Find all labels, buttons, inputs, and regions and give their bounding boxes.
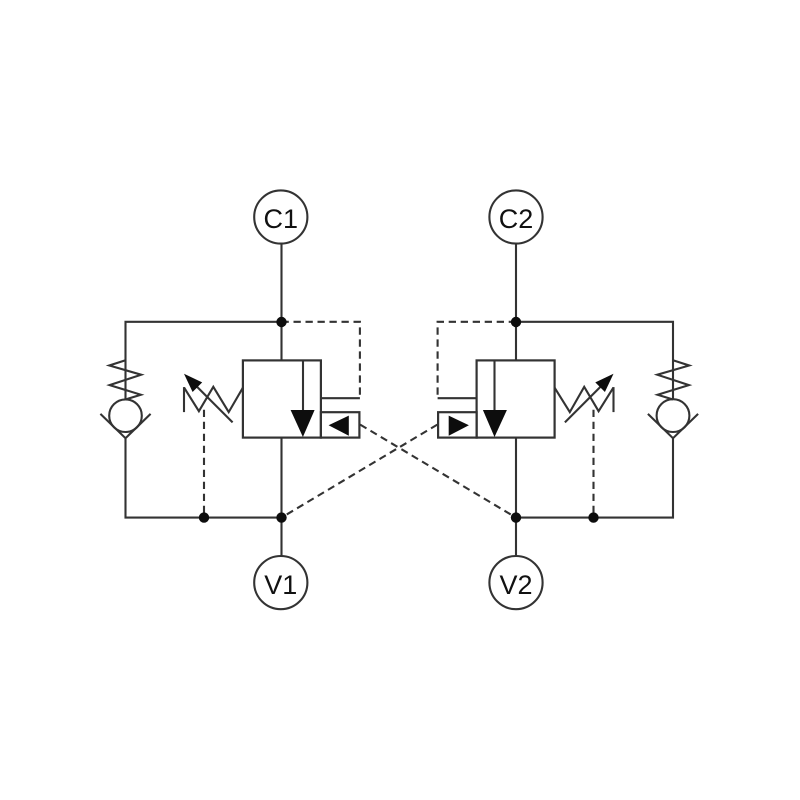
svg-text:V2: V2 bbox=[499, 570, 532, 600]
pilot line CB1 to V2 node (dashed) bbox=[360, 425, 516, 518]
CB1 adjustable spring bbox=[183, 387, 185, 412]
CB2 pilot port link bbox=[438, 397, 477, 399]
CB1 adjustment arrow head bbox=[184, 374, 202, 392]
check valve CV2 spring bbox=[657, 360, 689, 399]
CB2 adjustment arrow shaft bbox=[565, 386, 602, 423]
node F junction dot (CB2 drain) bbox=[588, 512, 598, 522]
CB2 adjustment arrow head bbox=[595, 374, 613, 392]
port V2 circle bbox=[489, 556, 542, 609]
CB2 pilot piston arrow bbox=[449, 416, 469, 436]
CB2 flow path line bbox=[493, 360, 495, 411]
CB1 flow arrow bbox=[291, 410, 315, 437]
check valve CV2 seat bbox=[648, 414, 698, 438]
svg-text:C2: C2 bbox=[499, 204, 534, 234]
port V1 circle bbox=[254, 556, 307, 609]
wire check valve CV1 to node B bbox=[126, 438, 282, 517]
port C2 circle bbox=[489, 190, 542, 243]
wire check valve CV2 to node E bbox=[516, 438, 673, 517]
counterbalance valve CB2 body bbox=[477, 360, 555, 437]
CB2 spring drain pilot line (dashed) bbox=[592, 410, 594, 518]
CB2 pilot piston box bbox=[438, 412, 477, 437]
port C1 circle bbox=[254, 190, 307, 243]
wire junction D to check valve CV2 bbox=[516, 322, 673, 400]
node C junction dot (CB1 drain) bbox=[199, 512, 209, 522]
node A junction dot (C1) bbox=[276, 317, 286, 327]
wire C1 to valve CB1 bbox=[280, 244, 282, 361]
CB1 flow path line bbox=[302, 360, 304, 411]
svg-text:V1: V1 bbox=[264, 570, 297, 600]
check valve CV1 seat bbox=[100, 414, 150, 438]
node B junction dot (V1) bbox=[276, 512, 286, 522]
wire CB2 to V2 bbox=[515, 438, 517, 556]
pilot line from C1 to CB1 (dashed) bbox=[282, 322, 360, 397]
CB1 pilot piston box bbox=[321, 412, 360, 437]
CB1 spring drain pilot line (dashed) bbox=[203, 410, 205, 518]
wire C2 to valve CB2 bbox=[515, 244, 517, 361]
check valve CV2 ball bbox=[657, 399, 690, 432]
node E junction dot (V2) bbox=[511, 512, 521, 522]
node D junction dot (C2) bbox=[511, 317, 521, 327]
wire CB1 to V1 bbox=[280, 438, 282, 556]
check valve CV1 spring bbox=[109, 360, 141, 399]
pilot line CB2 to V1 node (dashed) bbox=[282, 425, 438, 518]
counterbalance valve CB1 body bbox=[243, 360, 321, 437]
pilot line from C2 to CB2 (dashed) bbox=[438, 322, 516, 397]
CB2 adjustable spring bbox=[612, 387, 614, 412]
CB1 adjustment arrow shaft bbox=[196, 386, 233, 423]
svg-text:C1: C1 bbox=[264, 204, 299, 234]
CB1 pilot port link bbox=[321, 397, 360, 399]
check valve CV1 ball bbox=[109, 399, 142, 432]
wire junction A to check valve CV1 bbox=[126, 322, 282, 400]
CB2 flow arrow bbox=[483, 410, 507, 437]
CB1 pilot piston arrow bbox=[329, 416, 349, 436]
